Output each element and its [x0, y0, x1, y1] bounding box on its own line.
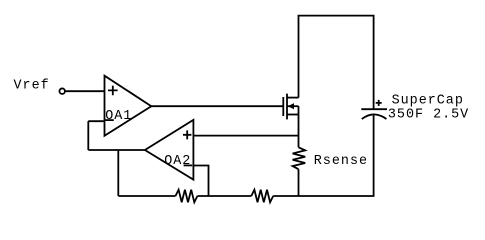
wire OA2 non-inverting input [193, 135, 298, 137]
wire cap bottom lead [373, 115, 375, 196]
capacitor SuperCap [361, 94, 469, 123]
wire cap top lead [373, 16, 375, 110]
op-amp OA2 [145, 120, 194, 180]
wire Vref to OA1 + input [65, 90, 105, 92]
wire Rsense bottom [298, 169, 300, 196]
wire bottom rail left [118, 195, 175, 197]
wire OA2 output to feedback [88, 149, 145, 151]
svg-text:OA1: OA1 [105, 109, 132, 124]
svg-text:SuperCap: SuperCap [392, 94, 464, 109]
op-amp OA1 [105, 76, 152, 136]
wire bottom rail middle [197, 195, 251, 197]
node Vref [14, 79, 50, 94]
wire source down [298, 106, 300, 147]
wire OA1 inverting input [88, 120, 104, 122]
terminal Vref [59, 88, 64, 94]
wire OA2 inverting input [193, 166, 208, 197]
wire drop to bottom rail [117, 150, 119, 196]
svg-text:350F 2.5V: 350F 2.5V [388, 108, 469, 123]
svg-text:Rsense: Rsense [314, 154, 368, 169]
wire vertical feedback left [87, 121, 89, 150]
transistor Q1 NMOS [283, 94, 298, 120]
resistor R1 [176, 190, 198, 203]
wire OA1 output to gate [151, 105, 283, 107]
resistor Rsense [293, 147, 368, 169]
wire drain up [298, 16, 300, 98]
wire bottom rail right [273, 195, 374, 197]
wire top rail [298, 15, 375, 17]
svg-text:Vref: Vref [14, 79, 50, 94]
svg-text:OA2: OA2 [164, 154, 191, 169]
resistor R2 [251, 190, 273, 203]
